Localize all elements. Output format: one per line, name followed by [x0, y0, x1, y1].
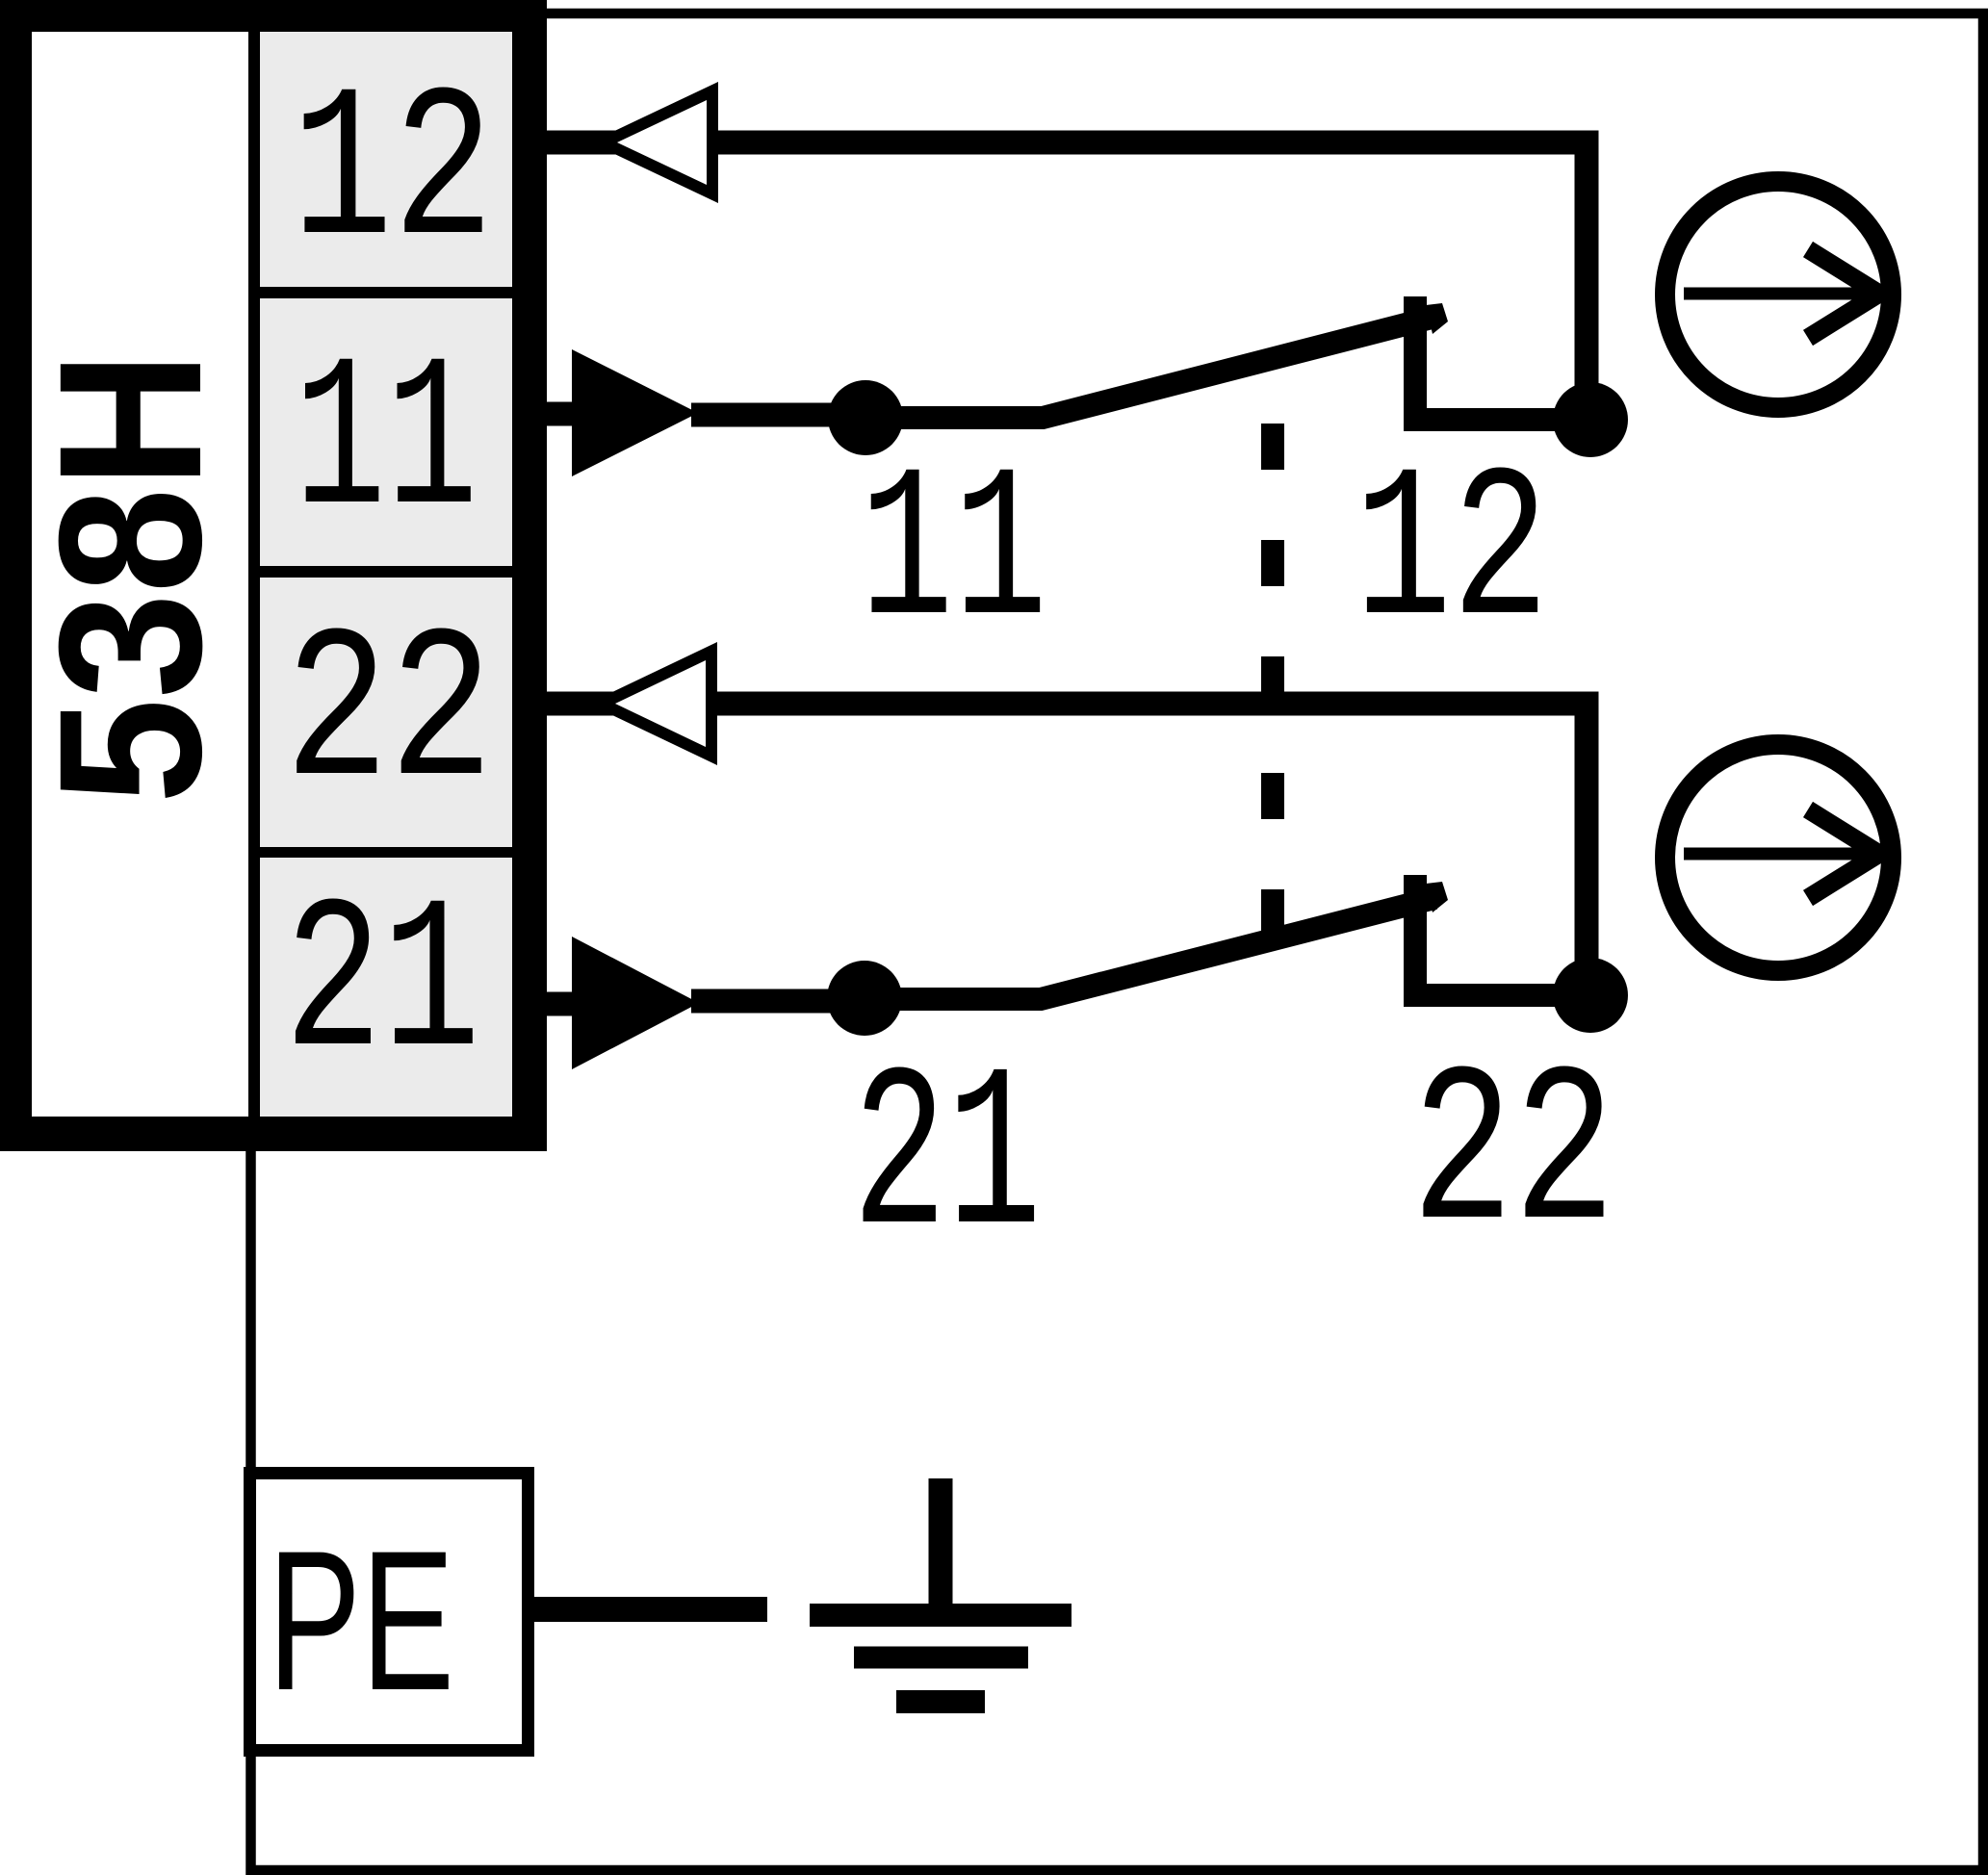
device box 538H — [0, 0, 547, 1151]
svg-text:21: 21 — [284, 863, 480, 1109]
terminal cell 22 — [260, 578, 512, 847]
terminal PE box — [250, 1474, 529, 1751]
svg-text:12: 12 — [1355, 432, 1549, 678]
wire stub at terminal 21 — [547, 992, 578, 1016]
node dot 22 — [1553, 958, 1628, 1033]
signal-in arrow at terminal 11 (solid) — [572, 349, 698, 476]
moving contact blade 21-22 (NC) — [864, 898, 1434, 999]
terminal cell 11 — [260, 298, 512, 566]
svg-text:11: 11 — [295, 321, 478, 567]
signal-out arrow at terminal 12 (hollow) — [590, 82, 718, 203]
ground — [810, 1478, 1071, 1702]
moving contact blade 11-12 (NC) — [865, 317, 1435, 418]
actuator arrow 1 — [1684, 249, 1879, 338]
svg-text:22: 22 — [1411, 1030, 1615, 1285]
svg-text:21: 21 — [852, 1030, 1042, 1292]
terminal cell 21 — [260, 858, 512, 1117]
fixed contact 12 — [1415, 296, 1590, 420]
fixed contact 22 — [1415, 875, 1590, 995]
actuator symbol circle 2 — [1665, 745, 1892, 971]
mechanical link (dashed) — [1261, 424, 1284, 939]
svg-text:PE: PE — [268, 1509, 454, 1732]
actuator symbol circle 1 — [1665, 182, 1892, 408]
node dot 11 — [828, 380, 903, 455]
svg-text:11: 11 — [860, 432, 1047, 678]
contact break tick 22 — [1426, 882, 1448, 912]
wire terminal 22 to contact 22 — [547, 704, 1587, 995]
signal-in arrow at terminal 21 (solid) — [572, 937, 699, 1069]
wire terminal 12 to contact 12 — [547, 142, 1587, 420]
actuator arrow 2 — [1684, 809, 1879, 898]
contact break tick 12 — [1426, 303, 1448, 334]
wire PE — [534, 1597, 767, 1622]
node dot 12 — [1553, 382, 1628, 457]
signal-out arrow at terminal 22 (hollow) — [588, 642, 717, 765]
wire arrow 21 to node 21 — [691, 989, 864, 1014]
svg-text:538H: 538H — [16, 351, 244, 804]
wire arrow 11 to node 11 — [691, 403, 865, 427]
terminal cell 12 — [260, 32, 512, 287]
svg-text:12: 12 — [292, 52, 494, 297]
svg-text:22: 22 — [285, 593, 494, 838]
node dot 21 — [827, 961, 902, 1036]
wire stub at terminal 11 — [547, 402, 578, 426]
